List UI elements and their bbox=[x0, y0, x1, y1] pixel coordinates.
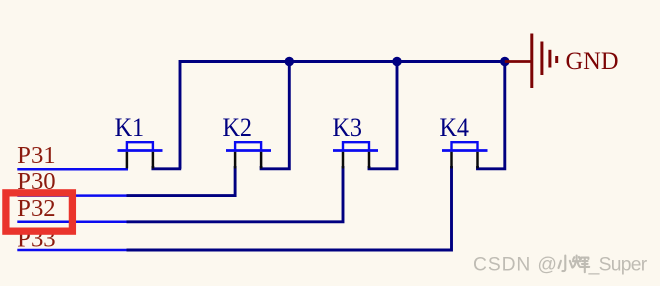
annotation: red highlight box around P32 bbox=[6, 193, 73, 231]
junction node at K2 riser bbox=[285, 57, 294, 66]
label K2 bbox=[223, 113, 253, 142]
port label P32 bbox=[17, 195, 56, 222]
port label P30 bbox=[17, 168, 56, 195]
pushbutton switch K1 bbox=[118, 142, 163, 168]
label K3 bbox=[333, 113, 363, 142]
junction node at K4 riser / GND tap bbox=[500, 57, 509, 66]
label K1 bbox=[115, 113, 145, 142]
pushbutton switch K2 bbox=[226, 142, 271, 168]
svg-text:K2: K2 bbox=[223, 113, 253, 142]
label K4 bbox=[440, 113, 470, 142]
wire: K2 right pin jog and riser to rail bbox=[261, 62, 289, 169]
wire: GND stub bbox=[505, 60, 532, 63]
svg-text:K4: K4 bbox=[440, 113, 470, 142]
wire: P33 run to K4 left riser bbox=[127, 166, 452, 250]
svg-text:_Super: _Super bbox=[588, 255, 648, 276]
pushbutton switch K4 bbox=[442, 142, 488, 168]
port label P31 bbox=[17, 142, 56, 169]
node P30: blue stub wire bbox=[17, 194, 126, 197]
wire: K1 right pin jog to riser bbox=[153, 166, 181, 169]
svg-text:CSDN @: CSDN @ bbox=[473, 255, 557, 276]
wire: K4 right pin jog and riser to rail bbox=[478, 62, 505, 169]
node P33: blue stub wire bbox=[17, 249, 126, 252]
wire: P32 run to K3 left riser bbox=[127, 166, 344, 222]
svg-text:P32: P32 bbox=[17, 195, 56, 222]
net label GND bbox=[566, 48, 619, 75]
wire: K3 right pin jog and riser to rail bbox=[369, 62, 397, 169]
svg-text:K3: K3 bbox=[333, 113, 363, 142]
ground symbol G (4 bars) bbox=[532, 34, 557, 89]
pushbutton switch K3 bbox=[333, 142, 378, 168]
node P31: blue stub wire to K1 left pin bbox=[17, 168, 128, 171]
svg-text:P31: P31 bbox=[17, 142, 56, 169]
port label P33 bbox=[17, 225, 56, 252]
junction node at K3 riser bbox=[392, 57, 401, 66]
node P32: blue stub wire bbox=[17, 221, 126, 224]
watermark CSDN @xiaohui_Super bbox=[473, 255, 648, 276]
wire: P30 run to K2 left riser bbox=[127, 166, 236, 196]
svg-text:K1: K1 bbox=[115, 113, 145, 142]
wire: top rail with K1 right riser bbox=[180, 62, 505, 169]
svg-text:GND: GND bbox=[566, 48, 619, 75]
